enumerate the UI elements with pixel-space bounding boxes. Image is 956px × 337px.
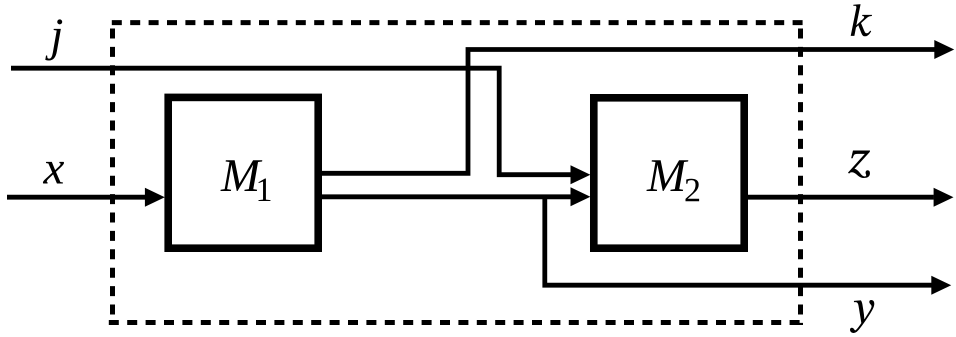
label M2 letter M [646, 160, 688, 191]
label z [848, 150, 870, 178]
wire x input [7, 195, 145, 200]
arrowhead k output [934, 40, 954, 59]
wire M1 upper output routed up to k output [322, 50, 935, 174]
module box M2 [594, 98, 744, 248]
wire M1 lower output to M2 lower input [322, 194, 571, 199]
arrowhead z output [934, 188, 954, 207]
wire z output from M2 [748, 195, 934, 200]
module box M1 [168, 97, 318, 248]
arrowhead lower input into M2 [571, 187, 591, 206]
wire j input: horizontal then down into M2 upper input [11, 68, 571, 175]
arrowhead j into M2 [571, 165, 591, 184]
dashed system boundary box [109, 20, 803, 325]
label y [850, 300, 874, 333]
arrowhead x into M1 [145, 188, 165, 207]
label M2 subscript 2 [685, 179, 699, 202]
label j [45, 19, 62, 60]
label M1 subscript 1 [258, 179, 270, 201]
label M1 letter M [220, 160, 262, 191]
wire y branch: down from lower wire then right to y output [545, 197, 932, 285]
label x [43, 162, 64, 184]
label k [851, 4, 872, 36]
arrowhead y output [931, 276, 951, 295]
